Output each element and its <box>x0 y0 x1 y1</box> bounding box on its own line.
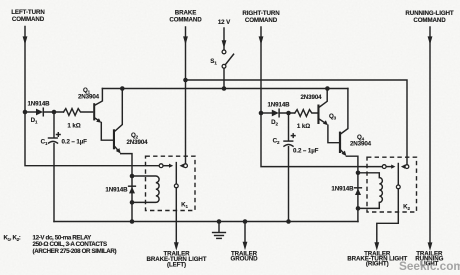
wire right-turn command drop with arrow <box>259 27 383 167</box>
svg-text:Seekic.com: Seekic.com <box>399 259 460 273</box>
node ground symbol junction <box>217 219 222 224</box>
wire trailer ground drop with arrow <box>243 222 248 251</box>
label TRAILER BRAKE-TURN LIGHT (LEFT) <box>147 251 207 269</box>
svg-text:1N914B: 1N914B <box>105 186 128 193</box>
wire K2 pole to trailer brake-turn light right with arrow <box>374 189 398 251</box>
wire running-light feed-through with arrows <box>428 27 433 251</box>
node 12V rail junction <box>222 86 227 91</box>
svg-text:12 V: 12 V <box>218 19 231 26</box>
label BRAKE COMMAND <box>169 10 202 24</box>
inductor K2 relay coil <box>358 173 382 209</box>
svg-text:(ARCHER 275-208 OR SIMILAR): (ARCHER 275-208 OR SIMILAR) <box>33 248 117 255</box>
svg-text:COMMAND: COMMAND <box>169 17 202 24</box>
svg-text:(LEFT): (LEFT) <box>167 261 186 268</box>
note relay specification <box>4 235 117 256</box>
relay K2 contact armature <box>382 164 408 189</box>
svg-text:1 kΩ: 1 kΩ <box>67 123 80 130</box>
relay K1 dashed enclosure <box>146 156 196 210</box>
resistor R2 1 kOhm <box>295 110 319 130</box>
wire 12V rail <box>102 88 348 90</box>
wire Q4 emitter to relay K2 coil <box>346 156 358 221</box>
label TRAILER BRAKE-TURN LIGHT (RIGHT) <box>347 251 407 268</box>
label RUNNING-LIGHT COMMAND <box>405 10 454 24</box>
diode D1 1N914B <box>25 101 64 125</box>
svg-text:2N3904: 2N3904 <box>350 140 372 147</box>
svg-text:2N3904: 2N3904 <box>126 139 148 146</box>
svg-text:RUNNING-LIGHT: RUNNING-LIGHT <box>405 10 454 17</box>
svg-text:0.2 – 1µF: 0.2 – 1µF <box>62 139 88 146</box>
svg-text:1N914B: 1N914B <box>27 101 50 108</box>
capacitor C2 <box>273 113 319 222</box>
svg-text:COMMAND: COMMAND <box>12 16 45 23</box>
node D1 cathode / C1 junction <box>52 110 57 115</box>
svg-text:0.2 – 1µF: 0.2 – 1µF <box>293 148 319 155</box>
node Q2 collector on 12V rail <box>120 86 125 91</box>
node D2 cathode / C2 junction <box>286 111 291 116</box>
wire brake command drop with arrow <box>183 27 188 164</box>
node right-turn / D2 anode junction <box>259 111 264 116</box>
node C2 return on ground rail <box>286 219 291 224</box>
transistor Q1 2N3904 <box>78 87 102 123</box>
svg-text:K1, K2:: K1, K2: <box>4 235 21 242</box>
wire Q1 emitter to Q2 base <box>101 123 113 141</box>
node K2 coil bottom junction <box>356 206 361 211</box>
resistor R1 1 kOhm <box>64 109 93 130</box>
wire brake rail to K2 <box>186 80 408 165</box>
diode K2 flyback 1N914B <box>331 186 361 196</box>
ground <box>213 222 226 239</box>
svg-text:1 kΩ: 1 kΩ <box>297 123 310 130</box>
svg-text:2N3904: 2N3904 <box>300 94 322 101</box>
svg-text:2N3904: 2N3904 <box>78 94 100 101</box>
svg-text:(RIGHT): (RIGHT) <box>366 260 389 267</box>
node K1 coil bottom junction <box>130 200 135 205</box>
node left-turn / D1 anode junction <box>23 110 28 115</box>
wire left-turn command drop with arrow <box>23 27 160 166</box>
transistor Q4 2N3904 <box>339 89 372 157</box>
switch S1 <box>210 50 233 68</box>
svg-text:COMMAND: COMMAND <box>245 17 278 24</box>
label LEFT-TURN COMMAND <box>11 9 45 23</box>
capacitor C1 <box>41 112 88 222</box>
transistor Q2 2N3904 <box>113 89 148 154</box>
svg-text:LEFT-TURN: LEFT-TURN <box>11 9 45 16</box>
node brake rail junction <box>183 78 188 83</box>
wire Q3 emitter to Q4 base <box>328 125 339 143</box>
wire 12V drop with arrow <box>222 28 227 50</box>
node Q3 collector on 12V rail <box>325 86 330 91</box>
wire K1 pole to trailer brake-turn light left with arrow <box>174 188 179 251</box>
transistor Q3 2N3904 <box>300 89 336 126</box>
svg-text:GROUND: GROUND <box>231 256 259 263</box>
diode D2 1N914B <box>261 102 295 127</box>
wire S1 to 12V rail <box>223 68 225 88</box>
relay K2 dashed enclosure <box>367 157 417 212</box>
inductor K1 relay coil <box>132 176 159 202</box>
svg-text:1N914B: 1N914B <box>267 102 290 109</box>
node trailer ground junction <box>243 219 248 224</box>
wire ground rail <box>54 221 358 223</box>
node K2 coil top junction <box>356 171 361 176</box>
svg-text:COMMAND: COMMAND <box>413 17 446 24</box>
relay K1 contact armature <box>159 163 187 188</box>
label TRAILER RUNNING LIGHT <box>415 251 443 268</box>
svg-text:RIGHT-TURN: RIGHT-TURN <box>242 10 280 17</box>
svg-text:1N914B: 1N914B <box>331 186 354 193</box>
diode K1 flyback 1N914B <box>105 186 135 193</box>
node K1 coil top junction <box>130 174 135 179</box>
svg-text:BRAKE: BRAKE <box>175 10 197 17</box>
label RIGHT-TURN COMMAND <box>242 10 280 24</box>
node K1 coil return on ground rail <box>130 219 135 224</box>
label TRAILER GROUND <box>231 251 259 263</box>
wire Q2 emitter to relay K1 coil <box>121 154 132 222</box>
